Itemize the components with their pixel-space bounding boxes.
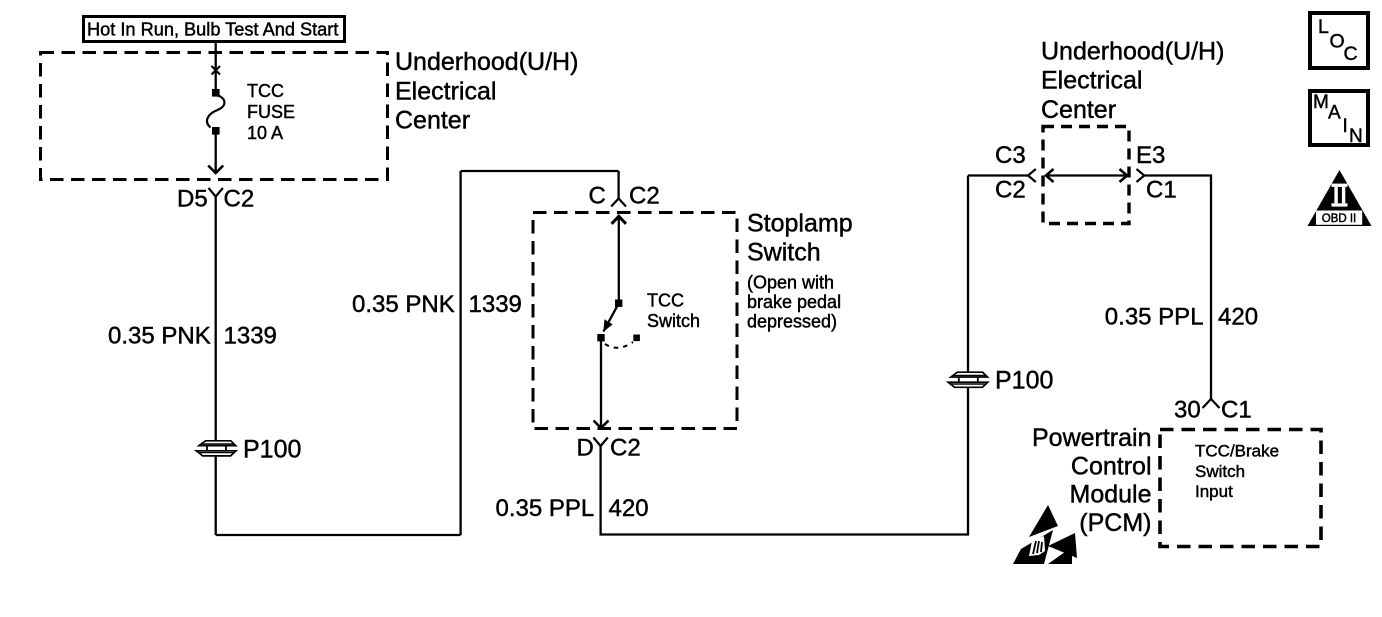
svg-text:0.35 PNK: 0.35 PNK xyxy=(108,323,211,350)
switch input arrowhead (up) xyxy=(612,216,626,224)
header box: Hot In Run, Bulb Test And Start xyxy=(84,17,345,42)
wire: D/C2 down and right to U/H center xyxy=(601,176,968,535)
svg-text:TCC: TCC xyxy=(247,81,284,101)
wire: switch input stem xyxy=(618,216,620,302)
grommet P100 (left) xyxy=(196,441,236,456)
connector C3/C2 fork xyxy=(1028,169,1036,182)
switch output arrowhead (down) xyxy=(594,421,609,429)
svg-text:depressed): depressed) xyxy=(747,312,837,332)
svg-text:E3: E3 xyxy=(1136,142,1165,169)
svg-text:Underhood(U/H): Underhood(U/H) xyxy=(395,48,578,76)
svg-text:(Open with: (Open with xyxy=(747,273,834,293)
wire: bottom left horizontal run xyxy=(216,534,461,536)
svg-text:0.35 PPL: 0.35 PPL xyxy=(496,495,595,522)
svg-text:TCC: TCC xyxy=(647,291,684,311)
svg-text:Underhood(U/H): Underhood(U/H) xyxy=(1041,38,1224,66)
svg-text:D5: D5 xyxy=(177,186,208,213)
svg-text:Hot In Run, Bulb Test And Star: Hot In Run, Bulb Test And Start xyxy=(87,20,338,40)
wire label 0.35 PPL 420 (right) xyxy=(1105,304,1258,331)
connector 30 C1 fork xyxy=(1203,399,1220,408)
wire: drop into C C2 connector xyxy=(617,171,619,199)
svg-text:P100: P100 xyxy=(995,367,1053,395)
LOC legend box xyxy=(1310,13,1368,68)
switch travel dashed arc xyxy=(605,342,633,348)
svg-text:Switch: Switch xyxy=(647,311,700,331)
connector D C2 fork xyxy=(593,438,607,447)
wire: E3/C1 to PCM xyxy=(1144,176,1211,400)
svg-text:0.35 PNK: 0.35 PNK xyxy=(352,291,455,318)
label: Underhood (U/H) Electrical Center (left) xyxy=(395,48,578,135)
svg-text:(PCM): (PCM) xyxy=(1079,509,1151,537)
svg-text:C1: C1 xyxy=(1146,177,1177,204)
switch lower contact dot xyxy=(597,334,604,341)
grommet P100 (right) xyxy=(948,372,988,387)
svg-text:Powertrain: Powertrain xyxy=(1032,424,1152,452)
wire label 0.35 PNK 1339 (left) xyxy=(108,323,277,350)
svg-text:Center: Center xyxy=(1041,96,1116,124)
wire: top horizontal to stoplamp switch xyxy=(461,170,619,172)
svg-text:420: 420 xyxy=(1218,304,1258,331)
wire: fuse to arrow xyxy=(215,133,217,173)
svg-text:Stoplamp: Stoplamp xyxy=(747,210,853,238)
wire: D5/C2 down to P100 xyxy=(215,197,217,536)
label (Open with brake pedal depressed) xyxy=(747,273,841,332)
wire: to C3/C2 connector xyxy=(968,174,1028,176)
OBD II symbol xyxy=(1308,170,1372,226)
wire label 0.35 PNK 1339 (middle) xyxy=(352,291,522,318)
ESD sensitivity symbol xyxy=(1013,505,1077,564)
svg-text:C: C xyxy=(589,183,606,210)
connector D5 C2 fork xyxy=(209,188,223,197)
wire: switch output stem xyxy=(600,338,602,429)
svg-text:L: L xyxy=(1318,16,1329,38)
svg-text:P100: P100 xyxy=(243,436,301,464)
svg-text:420: 420 xyxy=(609,495,649,522)
svg-text:Switch: Switch xyxy=(747,239,821,267)
switch throw contact dot xyxy=(633,335,640,342)
svg-text:C2: C2 xyxy=(610,435,641,462)
switch upper contact dot xyxy=(615,300,622,307)
splice x mark on fuse feed xyxy=(212,66,221,75)
svg-text:I: I xyxy=(1343,116,1348,137)
svg-text:Electrical: Electrical xyxy=(395,77,496,105)
svg-text:N: N xyxy=(1349,126,1363,147)
svg-text:Input: Input xyxy=(1195,482,1233,501)
svg-text:1339: 1339 xyxy=(469,291,522,318)
label Powertrain Control Module (PCM) xyxy=(1032,424,1152,537)
svg-text:30: 30 xyxy=(1174,397,1201,424)
svg-text:D: D xyxy=(577,435,594,462)
PCM dashed box: TCC/Brake Switch Input xyxy=(1160,430,1321,547)
U/H Electrical Center dashed box (right) xyxy=(1043,127,1129,224)
fuse label TCC FUSE 10 A xyxy=(247,81,295,143)
label Stoplamp Switch xyxy=(747,210,853,267)
svg-text:TCC/Brake: TCC/Brake xyxy=(1195,442,1279,461)
label TCC/Brake Switch Input xyxy=(1195,442,1279,502)
svg-text:brake pedal: brake pedal xyxy=(747,292,841,312)
svg-text:10 A: 10 A xyxy=(247,123,283,143)
Stoplamp Switch dashed box xyxy=(533,213,737,429)
svg-text:C2: C2 xyxy=(629,183,660,210)
svg-text:C2: C2 xyxy=(224,186,255,213)
svg-text:Switch: Switch xyxy=(1195,462,1245,481)
svg-text:M: M xyxy=(1313,92,1329,113)
wire: middle vertical riser xyxy=(459,171,461,535)
connector E3/C1 fork xyxy=(1137,169,1145,182)
svg-text:FUSE: FUSE xyxy=(247,102,295,122)
MAIN legend box xyxy=(1310,91,1368,147)
label TCC Switch xyxy=(647,291,700,332)
label: Underhood (U/H) Electrical Center (right) xyxy=(1041,38,1224,125)
connector C C2 fork xyxy=(611,199,626,207)
svg-text:Electrical: Electrical xyxy=(1041,67,1142,95)
svg-text:0.35 PPL: 0.35 PPL xyxy=(1105,304,1204,331)
svg-text:1339: 1339 xyxy=(224,323,277,350)
wire: header box to fuse xyxy=(215,42,217,90)
svg-text:Control: Control xyxy=(1071,452,1152,480)
svg-text:A: A xyxy=(1328,103,1341,124)
svg-text:C1: C1 xyxy=(1221,397,1252,424)
svg-text:O: O xyxy=(1330,31,1345,53)
switch blade (TCC Switch) xyxy=(604,303,619,331)
svg-text:C: C xyxy=(1344,43,1358,65)
svg-text:C2: C2 xyxy=(995,177,1026,204)
fuse TCC FUSE 10 A xyxy=(207,89,224,135)
svg-text:Module: Module xyxy=(1070,481,1152,509)
svg-text:Center: Center xyxy=(395,107,470,135)
double-headed arrow through U/H box xyxy=(1046,169,1127,182)
svg-text:OBD II: OBD II xyxy=(1322,213,1357,225)
svg-text:C3: C3 xyxy=(995,142,1026,169)
arrowhead down at fuse output xyxy=(208,166,223,174)
wire label 0.35 PPL 420 (middle) xyxy=(496,495,649,522)
switch blade arrowhead xyxy=(603,319,612,332)
U/H Electrical Center dashed box (left) xyxy=(41,53,388,180)
